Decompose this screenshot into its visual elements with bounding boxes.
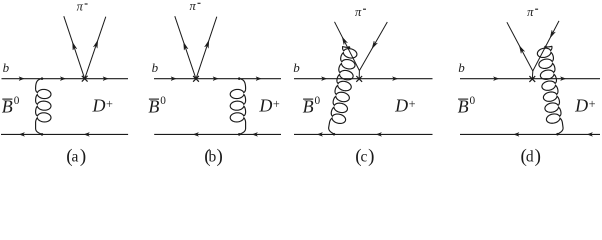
svg-text:0: 0 — [14, 95, 20, 107]
arrow 3 on b-quark line (a) — [103, 77, 108, 81]
weak vertex cross (b) — [193, 76, 199, 82]
svg-text:b: b — [458, 60, 465, 75]
svg-text:): ) — [217, 146, 223, 167]
svg-text:+: + — [589, 97, 596, 111]
gluon vertex dot top (d) — [544, 46, 546, 48]
svg-text:0: 0 — [470, 95, 476, 107]
pion antiquark line (right leg) (b) — [196, 17, 217, 79]
arrow 1 on b-quark line (d) — [494, 77, 499, 81]
gluon G (a) — [36, 79, 51, 135]
arrow 2 on b-quark line (a) — [60, 77, 65, 81]
diagram (c) b-quark line — [294, 78, 433, 80]
svg-text:π: π — [190, 0, 197, 13]
svg-text:c: c — [360, 149, 367, 166]
svg-text:): ) — [80, 146, 86, 167]
diagram (a) spectator antiquark line — [1, 133, 128, 135]
diagram (d) spectator antiquark line — [460, 133, 600, 135]
arrow 1 on b-quark line (c) — [322, 77, 327, 81]
svg-text:d: d — [526, 149, 534, 166]
stub from pion vertex to weak vertex (c) — [358, 71, 360, 79]
arrow 1 on spectator line (d) — [514, 133, 519, 137]
arrow 1 on b-quark line (a) — [19, 77, 24, 81]
weak vertex cross (a) — [82, 76, 88, 82]
arrow 2 on spectator line (b) — [253, 133, 258, 137]
pion quark line (left leg) (d) — [507, 22, 533, 71]
svg-text:+: + — [106, 97, 113, 111]
svg-text:D: D — [258, 96, 272, 116]
arrow on right pion leg (d) — [550, 30, 555, 37]
gluon G (d) — [537, 46, 563, 134]
gluon vertex dot top (b) — [238, 78, 240, 80]
svg-text:): ) — [368, 146, 374, 167]
arrow on right pion leg (a) — [93, 40, 97, 48]
arrow 3 on b-quark line (b) — [256, 77, 261, 81]
arrow on left pion leg (c) — [342, 37, 347, 45]
pion quark line (left leg) (b) — [175, 16, 196, 79]
gluon vertex dot bottom (b) — [238, 133, 240, 135]
svg-text:b: b — [152, 60, 159, 75]
svg-text:D: D — [394, 96, 408, 116]
svg-text:π: π — [77, 0, 84, 14]
arrow 1 on b-quark line (b) — [171, 77, 176, 81]
gluon vertex dot bottom (d) — [556, 133, 558, 135]
diagram (d) b-quark line — [460, 78, 600, 80]
svg-text:b: b — [3, 60, 10, 75]
pion antiquark line (right leg) (c) — [359, 22, 387, 71]
svg-text:b: b — [293, 60, 300, 75]
arrow 1 on spectator line (b) — [194, 133, 199, 137]
arrow on left pion leg (a) — [73, 42, 77, 50]
svg-text:π: π — [527, 5, 534, 19]
diagram (b) b-quark line — [154, 78, 281, 80]
arrow on right pion leg (c) — [372, 41, 377, 48]
pion antiquark line (right leg) (a) — [85, 17, 106, 79]
arrow on left pion leg (b) — [184, 42, 188, 50]
gluon G (c) — [329, 47, 357, 135]
svg-text:b: b — [209, 149, 217, 166]
gluon G (b) — [230, 79, 245, 135]
arrow on right pion leg (b) — [205, 41, 209, 49]
arrow 2 on spectator line (d) — [588, 133, 593, 137]
svg-text:+: + — [409, 97, 416, 111]
pion quark line (left leg) (a) — [64, 16, 85, 78]
diagram (c) spectator antiquark line — [294, 133, 433, 135]
arrow 2 on b-quark line (c) — [393, 77, 398, 81]
gluon vertex dot bottom (a) — [41, 133, 43, 135]
gluon vertex dot bottom (c) — [333, 133, 335, 135]
arrow 2 on b-quark line (d) — [561, 77, 566, 81]
arrow 1 on spectator line (a) — [20, 133, 25, 137]
gluon vertex dot top (c) — [348, 46, 350, 48]
arrow 2 on spectator line (a) — [84, 133, 89, 137]
svg-text:D: D — [92, 96, 106, 116]
diagram (b) spectator antiquark line — [154, 133, 281, 135]
svg-text:0: 0 — [315, 95, 321, 107]
svg-text:a: a — [72, 149, 79, 166]
arrow 2 on b-quark line (b) — [213, 77, 218, 81]
weak vertex cross (c) — [356, 76, 362, 82]
arrow 1 on spectator line (c) — [318, 133, 323, 137]
svg-text:0: 0 — [160, 95, 166, 107]
svg-text:+: + — [273, 97, 280, 111]
svg-text:π: π — [355, 5, 362, 19]
arrow on left pion leg (d) — [519, 46, 524, 53]
pion antiquark line (right leg) (d) — [533, 21, 559, 71]
arrow 2 on spectator line (c) — [377, 133, 382, 137]
gluon vertex dot top (a) — [41, 78, 43, 80]
pion quark line (left leg) (c) — [335, 22, 360, 71]
weak vertex cross (d) — [529, 76, 535, 82]
diagram (a) b-quark line — [2, 78, 129, 80]
stub from pion vertex to weak vertex (d) — [531, 71, 534, 79]
svg-text:D: D — [574, 96, 588, 116]
svg-text:): ) — [535, 146, 541, 167]
